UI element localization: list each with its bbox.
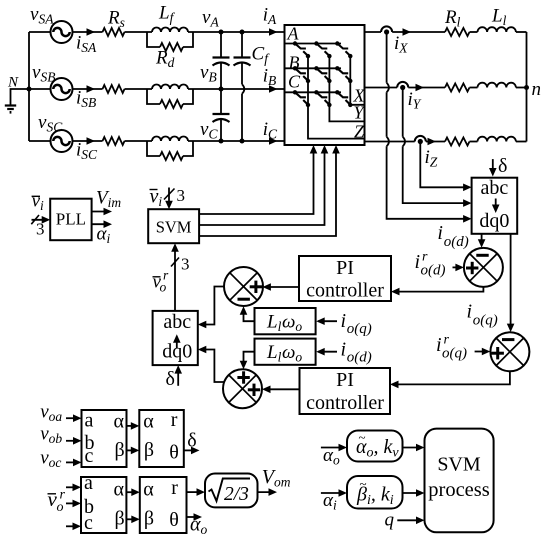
capacitor C_f A-B — [213, 58, 230, 66]
switch S_C2 — [314, 90, 331, 107]
wire v_i input to SVM — [168, 188, 170, 207]
sqrt(2/3) formula — [209, 479, 251, 502]
wire load Y R to L — [470, 87, 478, 89]
resistor R_s phase C — [103, 137, 125, 145]
switch S_C3 — [335, 90, 352, 107]
wire phase C source to Rs — [73, 140, 103, 142]
svg-text:a: a — [85, 409, 94, 431]
wire load Z L to bus — [516, 141, 527, 143]
svg-text:β: β — [144, 508, 154, 530]
wire converter bus A — [285, 43, 342, 45]
inductor L_f phase B — [152, 85, 188, 90]
resistor R_d phase B — [160, 100, 183, 108]
switch S_A2 — [314, 41, 331, 58]
wire i_od stub to Lw2 — [318, 351, 337, 353]
svg-text:3: 3 — [36, 220, 45, 239]
wire load Y L to bus — [516, 87, 527, 89]
wire V_om output — [258, 491, 275, 493]
wire abc-dq0 internal arrow — [495, 199, 497, 211]
wire hop i_X over load Z — [387, 137, 389, 147]
wire phase C filter to node — [188, 140, 221, 142]
svg-text:controller: controller — [306, 392, 384, 414]
svg-text:i: i — [436, 334, 442, 356]
wire alpha link 2 — [126, 491, 137, 493]
wire v_i input to PLL — [32, 219, 48, 221]
switch S_B2 — [314, 66, 331, 83]
svg-text:SVM: SVM — [437, 454, 481, 476]
block alphabeta-rtheta 1 — [139, 410, 184, 467]
wire load line Z to Rl — [426, 141, 445, 143]
PI controller 2 — [300, 368, 391, 414]
wire v_o ref to SVM — [174, 246, 176, 311]
svg-text:i: i — [437, 222, 443, 244]
wire alpha_i input — [321, 492, 345, 494]
wire i_oq output — [510, 234, 512, 330]
svg-text:~: ~ — [360, 476, 367, 491]
svg-text:β: β — [115, 508, 125, 530]
block dq0-abc voltage transform — [153, 311, 198, 365]
resistor R_d phase A — [160, 43, 183, 51]
switch S_C1 — [293, 90, 310, 107]
svg-text:δ: δ — [166, 368, 175, 390]
wire theta output alpha_o — [187, 516, 200, 518]
svg-text:o(d): o(d) — [421, 263, 446, 279]
svg-text:o: o — [160, 280, 167, 295]
wire load neutral bus — [526, 32, 528, 142]
wire converter bus B — [285, 67, 342, 69]
wire i_X measurement drop — [387, 32, 469, 219]
svg-text:β: β — [144, 439, 154, 461]
block abc-alphabeta 1 — [82, 410, 127, 467]
svg-text:dq0: dq0 — [162, 341, 192, 363]
wire r to sqrt block — [187, 491, 203, 493]
wire i_Y measurement drop — [403, 88, 469, 204]
wire dq0-abc internal arrow — [176, 337, 178, 349]
capacitor C_f B-C — [213, 114, 230, 122]
svg-text:SVM: SVM — [156, 217, 192, 236]
block alpha_o k_v — [347, 431, 403, 462]
svg-text:C: C — [288, 72, 301, 92]
wire alpha link 1 — [127, 425, 137, 427]
wire phase B source to Rs — [73, 88, 103, 90]
inductor L_f phase A — [152, 28, 188, 33]
summing junction d-axis voltage — [224, 267, 263, 306]
svg-text:2/3: 2/3 — [224, 484, 249, 505]
svg-text:~: ~ — [359, 430, 366, 445]
svg-text:controller: controller — [306, 280, 384, 302]
block abc-dq0 current transform — [472, 178, 518, 234]
wire i_Z measurement drop — [420, 142, 469, 188]
wire i_oq ref input — [475, 351, 488, 353]
svg-text:o(q): o(q) — [473, 312, 498, 328]
block SVM process — [425, 429, 494, 533]
svg-text:i: i — [415, 251, 421, 273]
svg-text:α: α — [143, 411, 154, 433]
svg-text:o(q): o(q) — [347, 321, 372, 337]
svg-text:α: α — [114, 411, 125, 433]
gain block sqrt(2/3) — [205, 474, 258, 508]
node v_A — [219, 30, 224, 35]
wire Lw2 to junction 3 — [244, 352, 255, 367]
wire phase B Rs to filter — [125, 88, 153, 90]
wire phase A Rs to filter — [125, 31, 153, 33]
switch S_B1 — [293, 66, 310, 83]
slash 3 on v_i input — [164, 189, 175, 200]
wire v_B node to converter — [221, 88, 285, 90]
resistor R_l phase X — [445, 28, 470, 36]
wire load X R to L — [470, 31, 478, 33]
resistor R_d phase C — [160, 152, 183, 160]
wire phase B bus to source — [29, 88, 51, 90]
wire phase A filter to node — [188, 31, 221, 33]
inductor L_l phase X — [478, 27, 516, 32]
wire v_o ref input c — [66, 525, 79, 527]
slash 3 on v_o ref — [171, 258, 179, 267]
wire v_o ref input a — [66, 486, 79, 488]
wire i_oq stub to Lw1 — [318, 320, 337, 322]
node n — [524, 85, 529, 90]
node cap column 2 on A — [240, 30, 245, 35]
wire load Z R to L — [470, 141, 478, 143]
wire beta link 1 — [127, 449, 137, 451]
wire v_ob input — [66, 440, 79, 442]
wire cap BC top lead — [220, 89, 222, 114]
wire converter column 1 to Z — [308, 56, 365, 139]
wire converter column 3 to X — [350, 56, 364, 105]
switch S_A3 — [335, 41, 352, 58]
wire load line X to Rl — [392, 31, 445, 33]
wire delta input to abc-dq0 — [492, 159, 494, 174]
resistor R_s phase A — [103, 28, 125, 36]
wire SVM gate line 1 — [199, 148, 313, 215]
wire v_oa input — [66, 417, 79, 419]
svg-text:process: process — [428, 479, 490, 501]
wire PI1 output to junction 2 — [265, 286, 299, 288]
wire delta input to dq0-abc — [177, 368, 179, 386]
wire load line Z left — [365, 141, 415, 143]
svg-text:q: q — [385, 510, 395, 531]
block L_l w_o 2 — [255, 339, 316, 365]
wire hop over phase B — [242, 84, 244, 94]
wire alpha_o input — [321, 447, 345, 449]
svg-text:PLL: PLL — [56, 210, 86, 229]
svg-text:n: n — [532, 79, 542, 100]
wire SVM gate line 3 — [199, 148, 336, 237]
wire load line Y to Rl — [408, 87, 445, 89]
wire phase A bus to source — [29, 31, 51, 33]
svg-text:θ: θ — [169, 509, 179, 531]
svg-text:A: A — [287, 24, 300, 44]
wire cap AB bottom lead — [220, 63, 222, 89]
wire beta link 2 — [126, 518, 137, 520]
inductor L_f phase C — [152, 137, 188, 142]
wire phase A source to Rs — [73, 31, 103, 33]
block alphabeta-rtheta 2 — [140, 477, 187, 533]
wire converter bus C — [285, 91, 342, 93]
switch S_B3 — [335, 66, 352, 83]
svg-text:α: α — [114, 479, 125, 501]
node cap column 2 on C — [240, 139, 245, 144]
svg-text:i: i — [341, 310, 347, 332]
wire v_A node to converter — [221, 31, 285, 33]
svg-text:β: β — [115, 439, 125, 461]
AC source v_SA — [51, 21, 73, 43]
wire junction 4 to PI2 — [393, 371, 510, 384]
AC source v_SC — [51, 130, 73, 152]
resistor R_l phase Z — [445, 138, 470, 146]
wire Lw1 to junction 2 — [244, 309, 255, 322]
inductor L_l phase Z — [478, 137, 516, 142]
current sensor i_X — [381, 26, 392, 34]
PI controller 1 — [299, 256, 391, 301]
switch S_A1 — [293, 41, 310, 58]
svg-text:r: r — [171, 409, 178, 431]
wire phase C Rs to filter — [125, 140, 153, 142]
wire phase B filter to node — [188, 88, 221, 90]
current sensor i_Z — [415, 136, 426, 144]
svg-text:PI: PI — [336, 369, 354, 391]
wire phase A Rd branch — [147, 32, 193, 47]
wire PLL output V_im — [92, 211, 110, 213]
slash 3 on PLL input — [31, 215, 39, 224]
svg-text:o(d): o(d) — [347, 350, 372, 366]
wire v_oc input — [66, 461, 79, 463]
wire delta output — [184, 449, 197, 451]
current arrow i_SB — [87, 85, 96, 93]
svg-text:δ: δ — [187, 429, 196, 451]
wire source bus left vertical — [28, 32, 30, 141]
wire phase C bus to source — [29, 140, 51, 142]
current arrow i_SA — [87, 28, 96, 36]
wire hop i_Y over load Z — [403, 137, 405, 147]
svg-text:α: α — [143, 479, 154, 501]
svg-text:r: r — [171, 477, 178, 499]
node v_C — [219, 139, 224, 144]
wire v_C node to converter — [221, 140, 285, 142]
wire PLL output alpha_i — [92, 223, 110, 225]
summing junction d-axis current — [464, 248, 503, 287]
svg-text:o(q): o(q) — [442, 346, 467, 362]
svg-text:abc: abc — [481, 177, 509, 199]
node v_B — [219, 87, 224, 92]
svg-text:3: 3 — [177, 186, 186, 205]
AC source v_SB — [51, 78, 73, 100]
wire phase B Rd branch — [147, 89, 193, 104]
resistor R_l phase Y — [445, 84, 470, 92]
wire i_od output — [481, 234, 483, 246]
svg-text:δ: δ — [498, 155, 507, 177]
svg-text:o(d): o(d) — [444, 234, 469, 250]
block PLL — [50, 199, 91, 241]
wire hop i_X over load Y — [387, 83, 389, 93]
wire block2 to SVM process — [403, 492, 423, 494]
svg-text:θ: θ — [169, 442, 179, 464]
svg-text:i: i — [341, 339, 347, 361]
wire load line X left — [365, 31, 382, 33]
svg-text:a: a — [84, 472, 93, 494]
wire PI2 output to junction 3 — [265, 388, 300, 390]
wire cap AC lower lead with hop — [241, 63, 243, 141]
inductor L_l phase Y — [478, 83, 516, 88]
wire junction 3 to dq0-abc — [200, 350, 223, 383]
svg-text:i: i — [467, 301, 473, 323]
block L_l w_o 1 — [255, 308, 316, 334]
svg-text:dq0: dq0 — [479, 210, 509, 232]
wire block1 to SVM process — [403, 447, 423, 449]
wire converter column 2 to Y — [329, 56, 364, 121]
wire cap AC top lead — [241, 32, 243, 58]
block abc-alphabeta 2 — [81, 477, 126, 533]
summing junction q-axis voltage — [223, 369, 262, 408]
node N — [27, 87, 32, 92]
wire junction 2 to dq0-abc — [200, 287, 224, 325]
block SVM modulator — [148, 209, 199, 243]
svg-text:3: 3 — [181, 255, 190, 274]
ground — [5, 106, 16, 113]
block beta_i k_i — [347, 476, 403, 509]
svg-text:c: c — [84, 512, 93, 534]
wire cap BC bottom lead — [220, 120, 222, 142]
current arrow i_SC — [87, 137, 96, 145]
svg-text:c: c — [85, 445, 94, 467]
wire q input — [397, 519, 422, 521]
resistor R_s phase B — [103, 85, 125, 93]
capacitor C_f A-C — [234, 58, 251, 66]
wire phase C Rd branch — [147, 141, 193, 156]
summing junction q-axis current — [490, 332, 529, 371]
wire SVM gate line 2 — [199, 148, 324, 226]
wire cap AB top lead — [220, 32, 222, 58]
wire ground branch — [11, 89, 30, 106]
svg-text:PI: PI — [336, 257, 354, 279]
wire v_o ref input b — [66, 502, 79, 504]
current sensor i_Y — [397, 82, 408, 90]
wire load line Y left — [365, 87, 398, 89]
svg-text:o: o — [57, 500, 64, 515]
wire load X L to bus — [516, 31, 527, 33]
matrix converter box — [285, 25, 365, 145]
wire junction d to PI1 — [394, 287, 484, 292]
wire i_od ref input — [453, 266, 462, 268]
svg-text:abc: abc — [163, 311, 191, 333]
